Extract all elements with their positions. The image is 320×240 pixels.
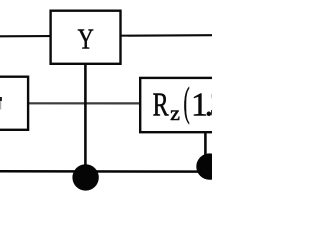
gate Rz(1.3...) (box U2 with label): [140, 78, 227, 132]
wire q1 (middle qubit line): [0, 102, 140, 104]
svg-text:R: R: [153, 87, 169, 124]
wire q0 (top qubit line): [0, 35, 212, 36]
gate at left edge (cut off box): [0, 77, 28, 130]
wire control vertical from gate Rz down to control dot 2: [204, 130, 207, 167]
wire q2 (bottom qubit line): [0, 170, 212, 173]
gate Y (box U1 with label Y): [51, 11, 121, 64]
wire control vertical from gate Y down to control dot 1: [84, 60, 87, 178]
control dot 2: [196, 153, 222, 179]
svg-text:z: z: [170, 101, 180, 125]
control dot 1: [72, 164, 98, 190]
svg-text:(: (: [184, 79, 190, 126]
svg-text:Y: Y: [78, 25, 94, 56]
svg-text:3: 3: [210, 86, 212, 123]
